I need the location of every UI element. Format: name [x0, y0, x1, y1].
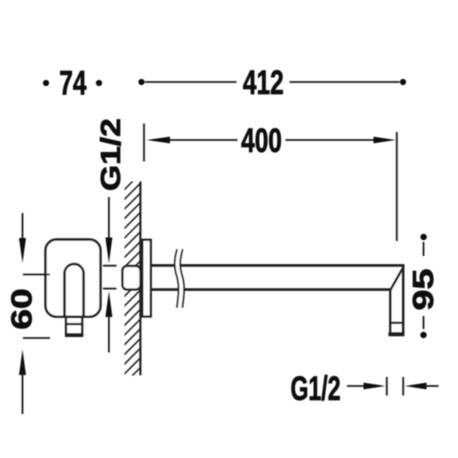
- dim 412 right dot: [400, 79, 406, 85]
- break symbol (white gap band): [175, 249, 184, 307]
- dim G1/2 up arrow: [105, 291, 112, 317]
- dim 400 left arrow: [147, 137, 171, 144]
- shower arm top line: [151, 264, 404, 267]
- dim 412 left line: [145, 81, 237, 83]
- escutcheon plate: [46, 240, 101, 317]
- break wavy line 1: [175, 249, 179, 307]
- dim 95 top stub: [423, 242, 425, 256]
- svg-text:412: 412: [243, 64, 284, 102]
- dim G1/2 bottom left arrow: [347, 385, 368, 387]
- svg-text:G1/2: G1/2: [290, 371, 340, 408]
- dim 95 bottom dot: [420, 332, 426, 338]
- wall hatching: [124, 172, 142, 394]
- svg-text:G1/2: G1/2: [94, 118, 126, 191]
- dim 412 right line: [290, 81, 400, 83]
- svg-text:60: 60: [6, 288, 38, 329]
- shower arm bottom line: [151, 288, 390, 291]
- flange: [142, 240, 151, 317]
- arm drop left edge: [389, 290, 391, 335]
- dim G1/2 bottom right tick: [402, 377, 404, 396]
- spout outlet joint line: [65, 323, 83, 325]
- end fitting bottom cap: [388, 332, 404, 336]
- dim 60 upper tick: [23, 274, 50, 276]
- dim 60 lower tick: [23, 337, 50, 339]
- spout outlet left edge: [65, 317, 67, 336]
- spout outlet right edge: [81, 317, 83, 336]
- dim 60 top arrow: [22, 213, 24, 242]
- dim G1/2 lower tick: [103, 288, 117, 290]
- svg-text:95: 95: [408, 269, 440, 311]
- dim 412 left dot: [138, 79, 144, 85]
- dim 400 right arrow: [286, 139, 376, 141]
- dim G1/2 bottom left tick: [386, 377, 388, 396]
- dim G1/2 upper tick: [103, 265, 117, 267]
- arm right edge: [402, 264, 404, 334]
- wall line: [139, 182, 141, 376]
- dim G1/2 down arrow: [108, 197, 110, 240]
- arm chamfer: [390, 266, 404, 290]
- dim 95 top dot: [420, 234, 426, 240]
- dim 400 right extension line: [396, 132, 398, 241]
- dim G1/2 bottom right arrow: [405, 383, 427, 390]
- break wavy line 2: [180, 249, 184, 307]
- end fitting joint line: [389, 322, 403, 324]
- dim 95 bottom stub: [423, 316, 425, 329]
- dim 74 left dot: [43, 80, 49, 86]
- svg-text:400: 400: [241, 122, 282, 160]
- spout U-tube: [65, 264, 84, 317]
- G1/2 wall connector square: [123, 266, 141, 290]
- spout outlet bottom cap: [65, 333, 83, 337]
- dim 74 right dot: [96, 80, 102, 86]
- svg-text:74: 74: [59, 65, 87, 103]
- dim 60 bottom arrow: [19, 350, 26, 376]
- dim 400 left extension tick: [143, 124, 145, 162]
